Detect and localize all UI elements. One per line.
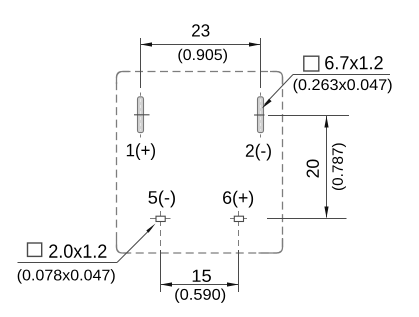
dimension 15: value 15 [193, 270, 211, 282]
pin 6 horizontal centerline [230, 218, 247, 220]
body corner bottom-right (solid) [259, 238, 283, 253]
dimension 23: value 23 [192, 24, 209, 36]
dimension 23: extension line right [260, 38, 262, 88]
pin 5 centerline dashes below [160, 230, 162, 236]
label 2.0x1.2: square symbol [28, 243, 42, 256]
pin 2 label 2(-) [246, 144, 271, 161]
dimension 23: left arrowhead [141, 42, 153, 46]
label 2.0x1.2: arrowhead at pin 5 [146, 224, 155, 233]
label 6.7x1.2: text [325, 56, 382, 69]
label 6.7x1.2: diagonal leader [265, 75, 294, 105]
pin 6 centerline dashes below [238, 230, 240, 236]
dimension 23: extension line left [140, 38, 142, 88]
pin 1 label 1(+) [127, 143, 155, 160]
pin 2 centerline dash below [260, 134, 262, 137]
dimension 15: left arrowhead [161, 282, 173, 286]
pin 1 inner centerline [140, 99, 142, 131]
pin 5 horizontal centerline [150, 218, 171, 220]
pin 6 vertical centerline [238, 211, 240, 226]
pin 2 horizontal tick [254, 114, 265, 116]
label 2.0x1.2: underline leader [18, 262, 118, 264]
dimension 20: value (0.787) (rotated) [332, 143, 346, 190]
label 2.0x1.2: diagonal leader [117, 228, 152, 263]
label 6.7x1.2: arrowhead at pin 2 [262, 99, 272, 109]
dimension 23: value (0.905) [178, 49, 227, 63]
pin 1 slot pad [138, 97, 144, 133]
label 6.7x1.2: underline leader [293, 74, 390, 76]
dimension 15: dimension line [161, 284, 239, 286]
pin 6 pad rectangle [234, 216, 243, 221]
dimension 15: right extension line [238, 250, 240, 292]
pin 1 horizontal tick [134, 114, 150, 116]
pin 5 pad rectangle [156, 216, 165, 221]
pin 1 centerline dash below [140, 134, 142, 137]
pin 2 inner centerline [260, 99, 262, 131]
label 6.7x1.2: text (0.263x0.047) [294, 79, 392, 93]
pin 5 vertical centerline [160, 211, 162, 226]
body corner top-left (solid) [117, 72, 130, 85]
pin 2 centerline dash above [260, 93, 262, 96]
dimension 15: value (0.590) [175, 288, 225, 302]
dimension 15: left extension line [160, 250, 162, 292]
dimension 23: dimension line [141, 44, 261, 46]
label 2.0x1.2: text [49, 244, 106, 257]
dimension 23: right arrowhead [249, 42, 261, 46]
pin 5 label 5(-) [148, 191, 175, 208]
label 6.7x1.2: square symbol [304, 56, 319, 71]
dimension 20: bottom extension line [267, 218, 347, 220]
dimension 20: bottom arrowhead [324, 207, 328, 219]
body corner bottom-left (solid) [117, 240, 130, 253]
dimension 20: dimension line [326, 116, 328, 218]
pin 1 centerline dash above [140, 93, 142, 96]
pin 2 slot pad [258, 97, 264, 133]
dimension 15: right arrowhead [227, 282, 239, 286]
pin 6 label 6(+) [223, 191, 253, 208]
dimension 20: value 20 (rotated) [307, 160, 319, 178]
dimension 20: top extension line [268, 115, 349, 117]
dimension 20: top arrowhead [324, 116, 328, 128]
label 2.0x1.2: text (0.078x0.047) [18, 269, 115, 283]
body corner top-right (solid) [270, 72, 283, 85]
component body outline (dashed) [117, 72, 283, 254]
